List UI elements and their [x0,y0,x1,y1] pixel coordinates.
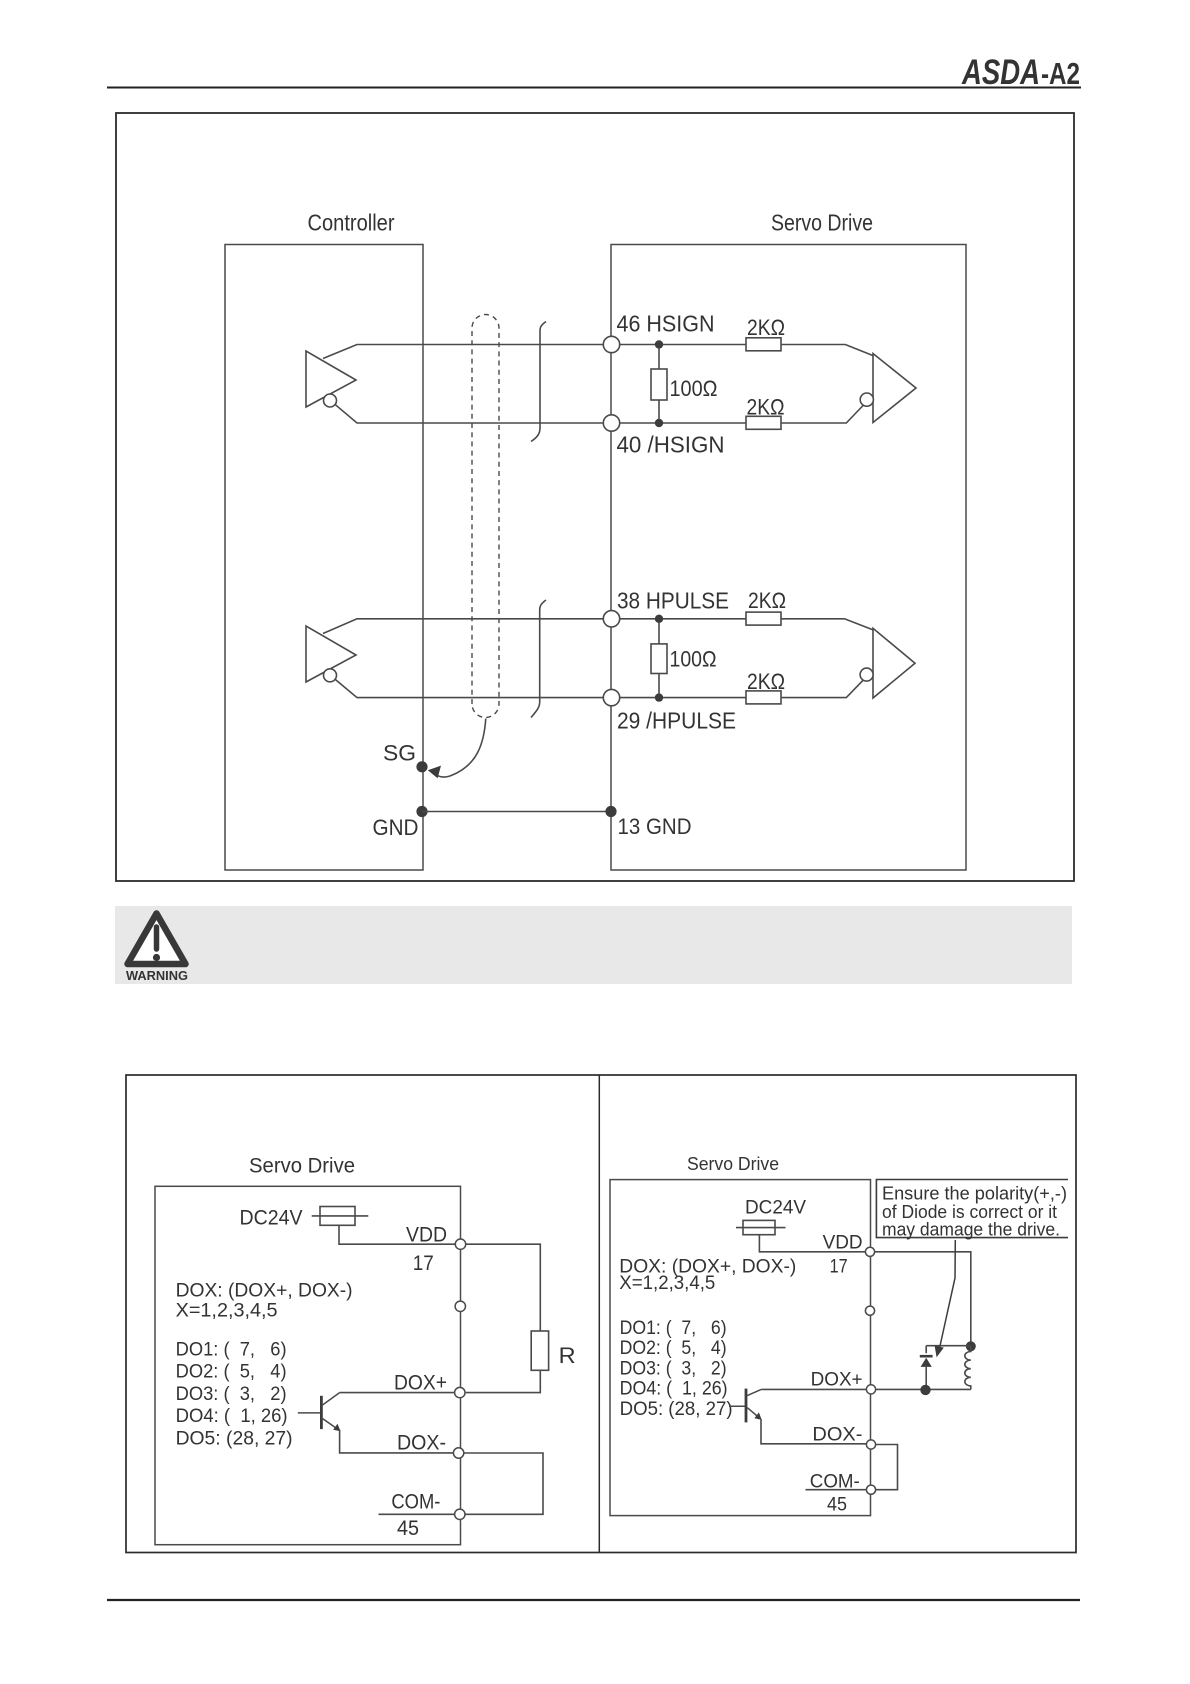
footer rule [107,1599,1080,1601]
svg-text:DO1: ( 7, 6): DO1: ( 7, 6) [176,1338,287,1360]
svg-text:-A2: -A2 [1041,56,1080,91]
svg-text:Ensure the polarity(+,-): Ensure the polarity(+,-) [882,1184,1067,1204]
svg-text:SG: SG [383,741,416,766]
svg-text:VDD: VDD [406,1223,447,1247]
wire HPULSE+ (driver to pin 38) [323,619,603,634]
line receiver U2 (HSIGN) [860,354,916,423]
svg-text:2KΩ: 2KΩ [748,588,786,613]
pin (unlabeled, left) [455,1301,465,1311]
svg-text:Servo Drive: Servo Drive [249,1155,355,1178]
svg-text:45: 45 [397,1516,419,1540]
svg-text:DO3: ( 3, 2): DO3: ( 3, 2) [176,1383,287,1405]
svg-text:ASDA: ASDA [961,53,1040,92]
wire /HPULSE (bubble to pin 29) [336,680,604,698]
junction node (relay top) [966,1341,976,1351]
node SG [416,761,427,772]
svg-text:29 /HPULSE: 29 /HPULSE [617,708,736,734]
resistor 100 ohm (HSIGN) [651,348,667,420]
pin COM- 45 (right) [866,1485,875,1494]
svg-text:38 HPULSE: 38 HPULSE [617,588,729,614]
divider [598,1075,600,1553]
controller box [225,245,423,871]
wire VDD to relay branch [875,1252,971,1342]
svg-text:DO1: ( 7, 6): DO1: ( 7, 6) [620,1317,727,1339]
svg-text:DOX+: DOX+ [811,1370,863,1391]
wire collector to DOX+ (right) [761,1388,866,1390]
wire HSIGN+ (driver to pin 46) [323,345,603,359]
wire emitter to DOX- (right) [761,1419,866,1444]
node GND (controller) [416,806,427,817]
svg-text:X=1,2,3,4,5: X=1,2,3,4,5 [619,1272,715,1294]
svg-text:100Ω: 100Ω [670,647,717,672]
pin VDD 17 (left) [455,1239,465,1249]
resistor 2K (HPULSE+) [746,612,873,630]
svg-text:DO5: (28, 27): DO5: (28, 27) [620,1398,733,1420]
svg-text:2KΩ: 2KΩ [747,669,785,694]
warning icon [126,914,188,984]
line driver U3 (HPULSE) [306,626,356,682]
svg-text:46 HSIGN: 46 HSIGN [617,311,715,337]
svg-text:DO2: ( 5, 4): DO2: ( 5, 4) [620,1337,727,1359]
wire DC24V to VDD (right) [759,1235,865,1252]
wire DOX- loop to COM- (right) [876,1445,898,1490]
pin COM- 45 (left) [455,1509,465,1519]
svg-text:WARNING: WARNING [126,969,188,983]
svg-text:GND: GND [373,815,419,840]
pin (unlabeled, right) [865,1306,874,1315]
pin DOX- (left) [453,1448,463,1458]
svg-text:13 GND: 13 GND [618,814,692,839]
resistor 2K (/HSIGN) [746,405,864,430]
junction node 40 [655,419,663,427]
wire emitter to DOX- [340,1430,454,1453]
svg-text:2KΩ: 2KΩ [747,395,785,420]
svg-text:X=1,2,3,4,5: X=1,2,3,4,5 [176,1300,278,1322]
fuse / source symbol (right) [736,1220,786,1234]
wire pin46 to resistor [620,344,746,346]
svg-text:Controller: Controller [308,210,395,236]
transistor Q (right) [729,1389,762,1423]
wire COM- stub (right) [806,1489,867,1491]
wire VDD to resistor R [466,1244,541,1331]
wire GND [422,811,611,813]
transistor Q (left) [298,1393,341,1432]
svg-text:DO3: ( 3, 2): DO3: ( 3, 2) [620,1357,727,1379]
svg-text:Servo Drive: Servo Drive [771,210,873,236]
junction node (diode bottom) [920,1385,930,1395]
servo drive box [611,245,966,871]
svg-text:DC24V: DC24V [240,1206,304,1230]
pin 46 [603,336,619,352]
svg-text:100Ω: 100Ω [670,376,718,401]
twisted-pair mark (HPULSE pair) [531,600,546,718]
line driver U1 (HSIGN) [306,351,356,407]
header rule [107,87,1081,89]
svg-text:DO2: ( 5, 4): DO2: ( 5, 4) [176,1361,287,1383]
junction node 46 [655,340,663,348]
svg-text:17: 17 [830,1257,848,1278]
pin DOX+ (left) [455,1387,465,1397]
wire /HSIGN (bubble to pin 40) [336,405,604,423]
resistor R [466,1331,549,1393]
twisted-pair mark (HSIGN pair) [531,322,546,442]
svg-text:VDD: VDD [823,1233,863,1254]
resistor 2K (HSIGN+) [746,338,873,356]
svg-text:COM-: COM- [391,1490,440,1514]
wire pin38 to resistor [620,618,746,620]
svg-text:40 /HSIGN: 40 /HSIGN [617,432,725,458]
resistor 100 ohm (HPULSE) [651,623,667,695]
wire DC24V to VDD [339,1225,456,1244]
svg-text:45: 45 [827,1495,847,1516]
outer frame (bottom) [126,1075,1076,1553]
wire pin40 to resistor [620,422,746,424]
svg-text:DC24V: DC24V [745,1198,806,1219]
node 13 GND [605,806,616,817]
svg-text:DO4: ( 1, 26): DO4: ( 1, 26) [620,1378,728,1400]
servo drive box (right) [610,1180,871,1516]
wire COM- stub [379,1513,455,1515]
svg-text:DO5: (28, 27): DO5: (28, 27) [176,1427,293,1449]
outer frame [116,113,1074,881]
svg-text:Servo Drive: Servo Drive [687,1154,779,1174]
diode D [920,1346,971,1386]
resistor 2K (/HPULSE) [746,679,864,704]
wire DOX- loop to COM- [464,1453,543,1514]
svg-text:may damage the drive.: may damage the drive. [882,1219,1060,1239]
svg-text:DOX-: DOX- [812,1425,862,1446]
pin 38 [603,611,619,627]
pin DOX- (right) [866,1440,875,1449]
svg-text:DOX-: DOX- [397,1431,446,1455]
svg-text:DOX: (DOX+, DOX-): DOX: (DOX+, DOX-) [176,1280,353,1302]
logo ASDA-A2 [961,53,1080,92]
svg-text:R: R [559,1343,576,1368]
warning grey bar [115,906,1072,984]
fuse / source symbol (left) [312,1207,369,1226]
pin 29 [603,689,619,705]
pin DOX+ (right) [866,1385,875,1394]
wire pin29 to resistor [620,697,746,699]
relay coil L [965,1346,971,1389]
junction node 38 [655,615,663,623]
shield drain arrow to SG [428,719,486,779]
line receiver U4 (HPULSE) [860,628,915,698]
junction node 29 [655,693,663,701]
note box [876,1180,1068,1240]
svg-text:DOX+: DOX+ [394,1371,447,1395]
wire DOX+ to relay branch [876,1388,971,1390]
servo drive box (left) [155,1186,461,1544]
wire collector to DOX+ [340,1392,455,1394]
pin VDD 17 (right) [865,1247,874,1256]
pin 40 [603,415,619,431]
svg-text:2KΩ: 2KΩ [747,315,785,340]
pointer arrow from note to diode [935,1240,956,1357]
svg-text:DO4: ( 1, 26): DO4: ( 1, 26) [176,1405,288,1427]
svg-text:17: 17 [413,1251,434,1275]
shield oval (dashed) [472,315,499,718]
